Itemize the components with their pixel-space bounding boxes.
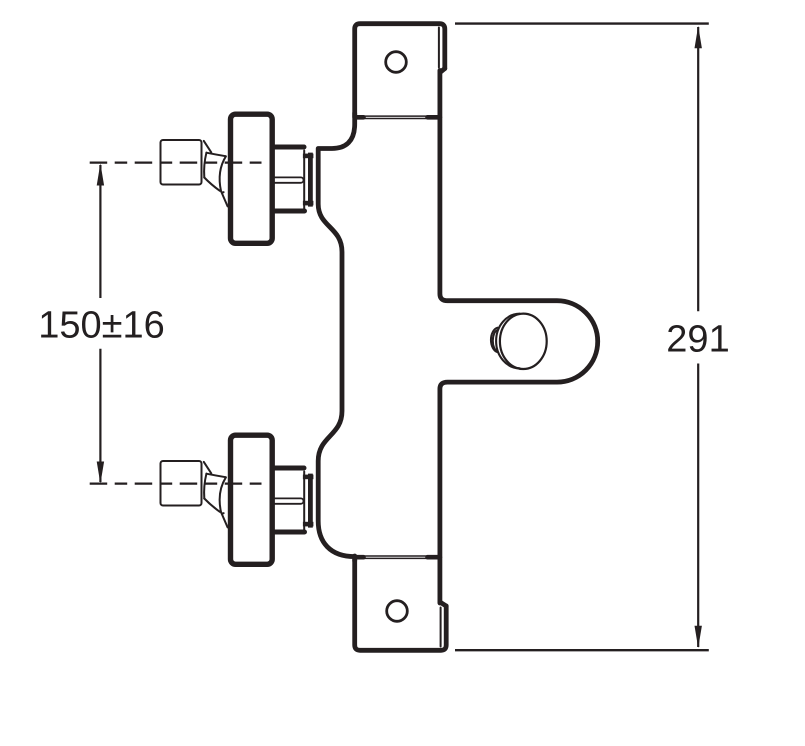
dimension line 150±16 (99, 165, 101, 482)
top escutcheon flange (231, 114, 273, 243)
bottom plate top edge stub left (355, 555, 364, 560)
dimension line 291 (697, 27, 699, 647)
bottom hex nut facet band (275, 498, 304, 503)
top collar bridge upper (303, 154, 314, 159)
top plate bottom edge double line (363, 116, 429, 118)
bottom collar bridge lower (303, 522, 314, 527)
top eccentric union top shoulder (204, 141, 212, 153)
top eccentric union tail (221, 192, 227, 207)
bottom plate top edge double line (363, 556, 429, 558)
arrowhead 150 top (97, 163, 104, 185)
bottom eccentric union bottom edge (204, 499, 220, 512)
body right outline with outlet boss (440, 71, 598, 604)
top collar (308, 153, 313, 207)
bottom plate top edge stub right (428, 555, 440, 560)
top hex nut facet band (275, 177, 304, 182)
bottom eccentric union bell arc (220, 477, 226, 513)
top hex nut right edge (303, 151, 305, 209)
arrowhead 150 bottom (97, 462, 104, 484)
top hex nut top edge (272, 145, 304, 150)
knob base ring arc outer (491, 328, 498, 352)
svg-text:291: 291 (666, 319, 729, 361)
bottom hex nut top edge (272, 466, 304, 471)
top collar bridge lower (303, 201, 314, 206)
top plate jog step (440, 69, 445, 73)
svg-text:150±16: 150±16 (38, 305, 165, 347)
bottom plate screw hole (387, 601, 408, 622)
bottom inlet centerline (90, 483, 262, 485)
top hex nut bottom edge (272, 209, 305, 214)
top eccentric union top edge (206, 153, 225, 157)
top eccentric union left concave edge (204, 153, 206, 178)
bottom eccentric union top shoulder (204, 462, 212, 474)
arrowhead 291 top (695, 26, 702, 48)
top plate fold inner line (438, 28, 440, 68)
bottom hex nut bottom edge (272, 530, 305, 535)
bottom plate fold inner line (440, 608, 442, 647)
bottom eccentric union tail (221, 513, 227, 528)
top plate bottom edge stub left (355, 115, 364, 120)
bottom escutcheon flange (231, 435, 273, 564)
bottom collar (308, 474, 313, 528)
knob outer ellipse (500, 314, 547, 369)
bottom mounting plate (355, 556, 447, 650)
top inlet centerline (90, 162, 262, 164)
bottom eccentric union top edge (206, 474, 225, 478)
extension line bottom for 291 (455, 649, 709, 651)
knob cap side profile arc (496, 314, 519, 369)
top plate bottom edge stub right (428, 115, 440, 120)
top inlet pipe (161, 140, 202, 185)
bottom collar bridge upper (303, 475, 314, 480)
top mounting plate (355, 24, 445, 117)
knob base ring arc inner (493, 330, 497, 351)
bottom eccentric union left concave edge (204, 474, 206, 499)
arrowhead 291 bottom (695, 626, 702, 648)
extension line top for 291 (455, 22, 709, 24)
top eccentric union bell arc (220, 156, 226, 192)
top plate screw hole (386, 52, 407, 73)
bottom plate jog step (440, 602, 446, 606)
body left outline with S-curves (318, 113, 355, 561)
bottom hex nut right edge (303, 472, 305, 530)
bottom inlet pipe (161, 461, 202, 506)
top eccentric union bottom edge (204, 178, 220, 191)
